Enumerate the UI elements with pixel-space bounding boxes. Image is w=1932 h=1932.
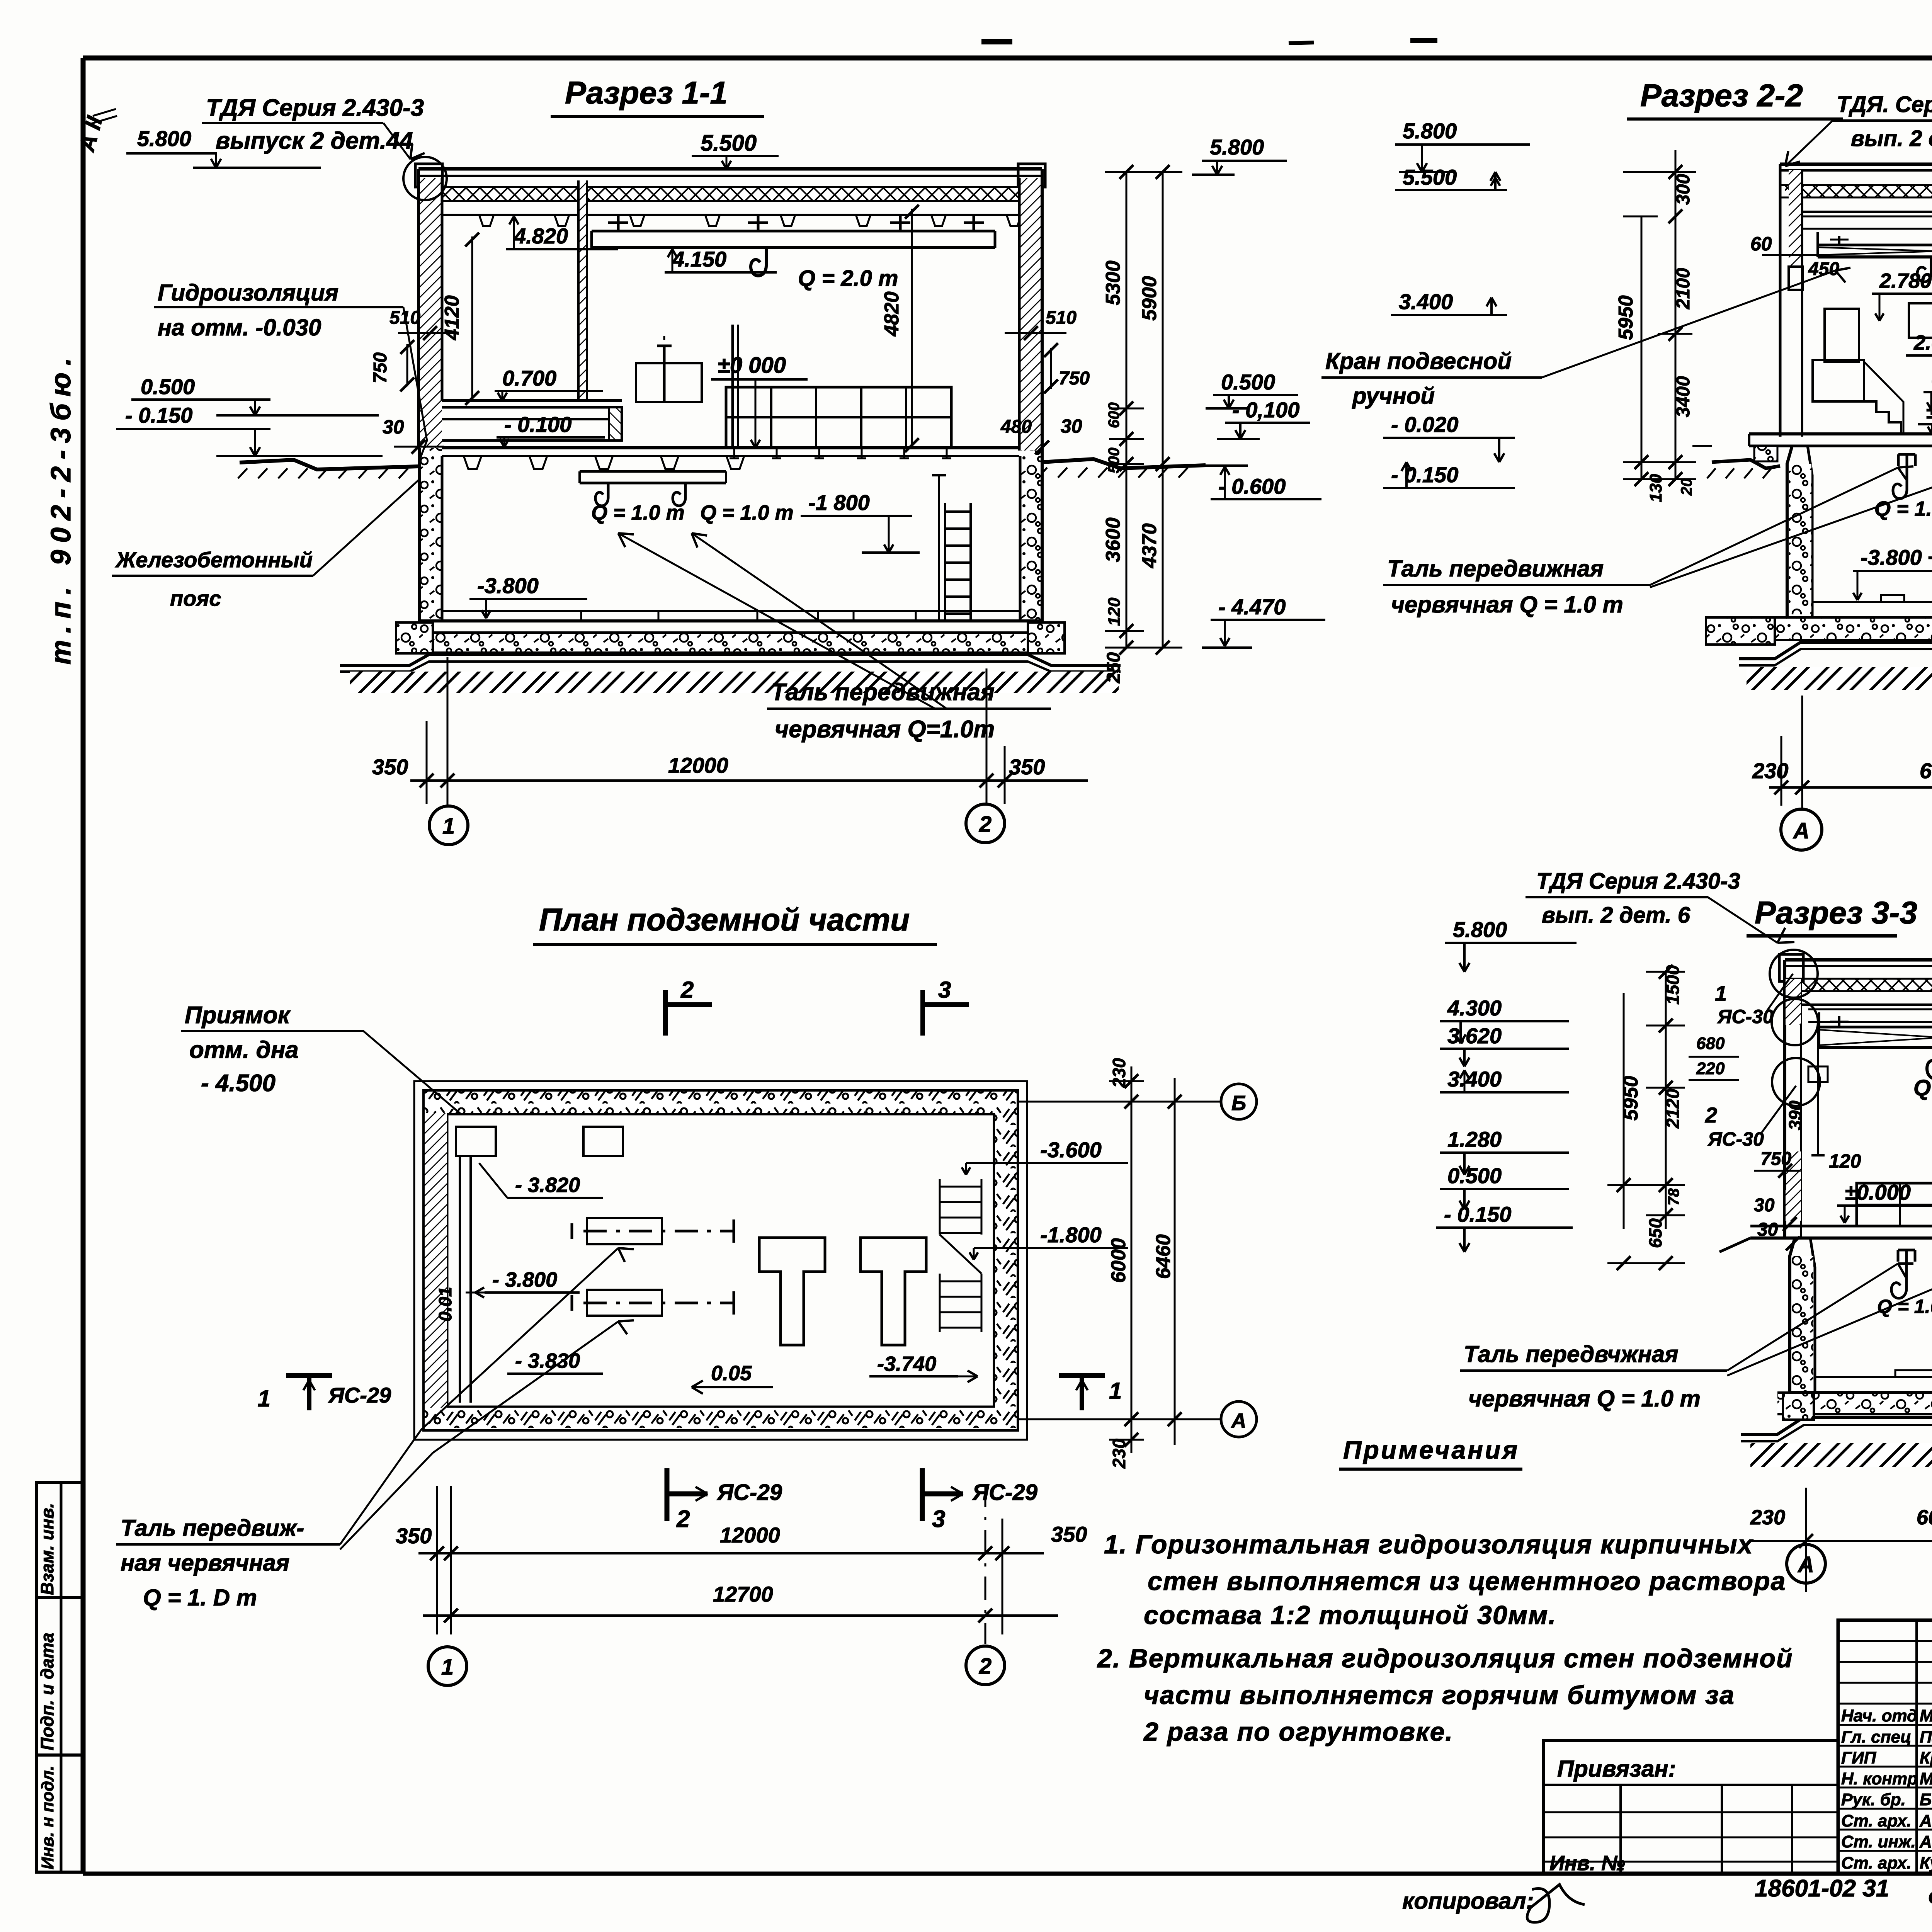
- svg-text:Приямок: Приямок: [185, 1002, 291, 1029]
- svg-text:Инв. №: Инв. №: [1549, 1852, 1625, 1875]
- svg-text:- 0.100: - 0.100: [504, 412, 571, 437]
- svg-text:2120: 2120: [1663, 1088, 1683, 1129]
- svg-text:части выполняется горячим б: части выполняется горячим битумом за: [1144, 1680, 1735, 1710]
- svg-text:Разрез 2-2: Разрез 2-2: [1640, 78, 1803, 113]
- svg-text:Нач. отд: Нач. отд: [1841, 1706, 1917, 1725]
- svg-text:3.620: 3.620: [1447, 1024, 1502, 1048]
- svg-text:стен выполняется из цементно: стен выполняется из цементного раствора: [1148, 1566, 1786, 1596]
- svg-text:-3.800: -3.800: [477, 573, 539, 598]
- svg-text:ЯС-29: ЯС-29: [716, 1480, 782, 1505]
- svg-text:Б: Б: [1231, 1092, 1246, 1115]
- svg-text:5.800: 5.800: [1210, 135, 1264, 159]
- svg-text:План подземной части: План подземной части: [539, 902, 910, 937]
- svg-text:4.150: 4.150: [672, 247, 726, 271]
- svg-text:0.01: 0.01: [435, 1287, 455, 1321]
- svg-text:копировал:: копировал:: [1402, 1888, 1534, 1914]
- svg-text:- 3.800: - 3.800: [492, 1268, 557, 1291]
- svg-text:12000: 12000: [668, 753, 728, 777]
- svg-text:ЯС-30: ЯС-30: [1717, 1006, 1774, 1027]
- svg-text:0.500: 0.500: [1221, 370, 1275, 394]
- svg-text:3.400: 3.400: [1447, 1067, 1502, 1091]
- svg-text:-3.740: -3.740: [877, 1352, 936, 1376]
- svg-text:ЯС-29: ЯС-29: [972, 1480, 1037, 1505]
- svg-text:А: А: [1797, 1552, 1814, 1577]
- svg-text:30: 30: [383, 416, 404, 438]
- svg-text:0.05: 0.05: [711, 1362, 752, 1385]
- svg-text:2: 2: [680, 977, 694, 1003]
- svg-text:450: 450: [1808, 259, 1839, 279]
- svg-text:- 0.150: - 0.150: [1391, 463, 1458, 487]
- svg-text:130: 130: [1646, 474, 1665, 502]
- svg-text:230: 230: [1109, 1058, 1129, 1088]
- svg-text:480: 480: [1000, 417, 1032, 437]
- svg-text:1.280: 1.280: [1447, 1127, 1502, 1151]
- svg-text:60: 60: [1750, 233, 1772, 255]
- svg-text:- 3.830: - 3.830: [515, 1349, 580, 1372]
- svg-text:5.800: 5.800: [137, 126, 191, 151]
- svg-text:1. Горизонтальная гидроизоляц: 1. Горизонтальная гидроизоляция кирпичны…: [1104, 1530, 1754, 1559]
- svg-text:Q = 1.0 т: Q = 1.0 т: [1877, 1296, 1932, 1317]
- svg-text:0.700: 0.700: [502, 366, 556, 390]
- svg-text:Болотова: Болотова: [1920, 1790, 1932, 1809]
- svg-text:±0.000: ±0.000: [1845, 1180, 1911, 1204]
- svg-text:5900: 5900: [1138, 276, 1161, 321]
- svg-text:Железобетонный: Железобетонный: [115, 548, 313, 572]
- svg-text:Примечания: Примечания: [1343, 1435, 1519, 1464]
- svg-text:12000: 12000: [720, 1523, 780, 1547]
- svg-text:на отм. -0.030: на отм. -0.030: [158, 315, 321, 340]
- svg-text:1: 1: [442, 814, 455, 839]
- svg-text:120: 120: [1105, 597, 1124, 626]
- svg-text:Н. контр: Н. контр: [1841, 1769, 1918, 1788]
- svg-text:3: 3: [938, 977, 951, 1003]
- svg-text:Q = 1.0 т: Q = 1.0 т: [591, 501, 685, 524]
- svg-text:3600: 3600: [1102, 517, 1124, 562]
- svg-text:3: 3: [932, 1506, 945, 1532]
- svg-text:2100: 2100: [1673, 268, 1694, 310]
- svg-text:Ст. инж.: Ст. инж.: [1841, 1832, 1916, 1851]
- svg-text:±0.000: ±0.000: [1926, 400, 1932, 423]
- svg-text:-1.800: -1.800: [1040, 1223, 1102, 1247]
- svg-text:ТДЯ. Сер. 2. 430-3: ТДЯ. Сер. 2. 430-3: [1837, 92, 1932, 117]
- svg-text:4.300: 4.300: [1447, 996, 1502, 1020]
- svg-text:2: 2: [676, 1506, 690, 1532]
- svg-text:2: 2: [1705, 1103, 1717, 1127]
- svg-text:±0 000: ±0 000: [718, 353, 786, 378]
- svg-text:вып. 2 дет. 6: вып. 2 дет. 6: [1542, 903, 1690, 928]
- svg-text:3400: 3400: [1673, 376, 1694, 417]
- svg-text:Ст. арх.: Ст. арх.: [1841, 1811, 1912, 1830]
- svg-text:- 4.470: - 4.470: [1218, 595, 1286, 619]
- svg-text:Взам. инв.: Взам. инв.: [37, 1503, 57, 1595]
- svg-text:18601-02 31: 18601-02 31: [1755, 1875, 1889, 1902]
- svg-text:Подп. и дата: Подп. и дата: [37, 1633, 57, 1750]
- svg-text:3.400: 3.400: [1399, 289, 1453, 314]
- svg-text:червячная Q = 1.0 т: червячная Q = 1.0 т: [1391, 592, 1623, 617]
- svg-text:ТДЯ Серия 2.430-3: ТДЯ Серия 2.430-3: [1536, 869, 1740, 894]
- svg-text:Рук. бр.: Рук. бр.: [1841, 1790, 1906, 1809]
- svg-text:6460: 6460: [1152, 1234, 1175, 1279]
- svg-text:Мешалкин: Мешалкин: [1920, 1706, 1932, 1725]
- svg-text:т.п. 902-2-3бю.: т.п. 902-2-3бю.: [46, 351, 77, 665]
- svg-text:0.500: 0.500: [1447, 1163, 1502, 1188]
- svg-text:ЯС-29: ЯС-29: [328, 1383, 391, 1407]
- svg-text:0.500: 0.500: [141, 374, 195, 399]
- svg-text:1: 1: [441, 1655, 454, 1680]
- svg-text:230: 230: [1752, 759, 1788, 783]
- svg-text:350: 350: [396, 1524, 432, 1548]
- svg-text:Гидроизоляция: Гидроизоляция: [158, 280, 338, 306]
- svg-text:2.080: 2.080: [1913, 331, 1932, 354]
- svg-text:750: 750: [1760, 1149, 1791, 1169]
- svg-text:78: 78: [1665, 1188, 1682, 1206]
- svg-text:1: 1: [1109, 1378, 1122, 1404]
- svg-text:-3.600: -3.600: [1040, 1138, 1102, 1162]
- svg-text:А: А: [1231, 1409, 1247, 1432]
- svg-text:Q = 2.0 т: Q = 2.0 т: [1913, 1075, 1932, 1100]
- svg-text:390: 390: [1785, 1100, 1805, 1130]
- svg-text:Панченко: Панченко: [1920, 1728, 1932, 1747]
- svg-text:ГИП: ГИП: [1841, 1748, 1877, 1767]
- svg-text:отм. дна: отм. дна: [189, 1037, 299, 1063]
- svg-text:6000: 6000: [1917, 1506, 1932, 1529]
- svg-text:Крюков: Крюков: [1920, 1748, 1932, 1767]
- svg-text:Кран подвесной: Кран подвесной: [1325, 348, 1512, 374]
- svg-text:выпуск 2 дет.44: выпуск 2 дет.44: [216, 128, 413, 154]
- svg-text:5.500: 5.500: [701, 131, 757, 156]
- svg-text:Ст. арх.: Ст. арх.: [1841, 1854, 1912, 1872]
- svg-text:5950: 5950: [1620, 1076, 1642, 1121]
- svg-text:2.780: 2.780: [1879, 269, 1932, 293]
- svg-text:- 0.150: - 0.150: [125, 403, 192, 427]
- svg-text:1: 1: [1715, 981, 1727, 1005]
- svg-text:- 0.600: - 0.600: [1218, 474, 1286, 498]
- svg-text:червячная Q=1.0т: червячная Q=1.0т: [775, 716, 995, 743]
- svg-text:220: 220: [1696, 1059, 1725, 1078]
- svg-text:20: 20: [1678, 478, 1695, 496]
- svg-text:Гл. спец: Гл. спец: [1841, 1728, 1911, 1747]
- svg-text:Таль передвчжная: Таль передвчжная: [1464, 1341, 1679, 1367]
- svg-text:30: 30: [1757, 1219, 1778, 1240]
- svg-text:состава 1:2 толщиной 30мм: состава 1:2 толщиной 30мм.: [1144, 1600, 1556, 1630]
- svg-text:350: 350: [1051, 1522, 1087, 1546]
- svg-text:-1 800: -1 800: [808, 490, 870, 515]
- svg-text:червячная Q = 1.0 т: червячная Q = 1.0 т: [1468, 1386, 1701, 1412]
- svg-text:Разрез 3-3: Разрез 3-3: [1755, 895, 1917, 930]
- svg-text:Таль передвиж-: Таль передвиж-: [121, 1515, 304, 1541]
- svg-text:- 4.500: - 4.500: [201, 1070, 276, 1097]
- svg-text:30: 30: [1754, 1195, 1775, 1216]
- svg-text:Мильцер: Мильцер: [1920, 1769, 1932, 1788]
- svg-text:1500: 1500: [1663, 965, 1683, 1005]
- svg-text:500: 500: [1105, 447, 1122, 473]
- svg-text:Разрез 1-1: Разрез 1-1: [565, 75, 728, 111]
- svg-text:5.800: 5.800: [1403, 119, 1457, 143]
- svg-text:Таль передвижная: Таль передвижная: [771, 679, 995, 706]
- svg-text:Q = 2.0 т: Q = 2.0 т: [798, 266, 898, 291]
- svg-text:Абдулина: Абдулина: [1919, 1832, 1932, 1851]
- svg-text:- 0.020: - 0.020: [1391, 412, 1458, 437]
- svg-text:- 3.820: - 3.820: [515, 1173, 580, 1197]
- svg-text:5950: 5950: [1615, 295, 1637, 340]
- svg-text:350: 350: [372, 755, 408, 779]
- svg-text:Q = 1. D т: Q = 1. D т: [143, 1585, 257, 1611]
- svg-text:120: 120: [1829, 1150, 1861, 1172]
- svg-text:2. Вертикальная гидроизоляци: 2. Вертикальная гидроизоляция стен подзе…: [1097, 1644, 1793, 1673]
- svg-text:Q = 1.0 т: Q = 1.0 т: [1874, 497, 1932, 520]
- svg-text:4820: 4820: [881, 291, 903, 337]
- svg-text:Андрианов: Андрианов: [1919, 1811, 1932, 1830]
- svg-text:вып. 2 дет.13: вып. 2 дет.13: [1851, 126, 1932, 151]
- svg-text:1: 1: [258, 1386, 270, 1412]
- svg-text:250: 250: [1104, 652, 1124, 684]
- svg-text:30: 30: [1061, 415, 1082, 437]
- svg-text:ТДЯ Серия 2.430-3: ТДЯ Серия 2.430-3: [206, 95, 424, 121]
- svg-text:12700: 12700: [713, 1582, 773, 1606]
- svg-text:5300: 5300: [1102, 260, 1124, 305]
- svg-text:ная червячная: ная червячная: [121, 1550, 289, 1576]
- svg-text:4370: 4370: [1138, 523, 1161, 568]
- svg-text:680: 680: [1696, 1034, 1725, 1053]
- svg-text:5.800: 5.800: [1453, 917, 1507, 942]
- svg-text:пояс: пояс: [170, 586, 221, 611]
- svg-text:2 раза по огрунтовке.: 2 раза по огрунтовке.: [1143, 1717, 1453, 1747]
- svg-text:230: 230: [1109, 1439, 1129, 1469]
- svg-text:Q = 1.0 т: Q = 1.0 т: [700, 501, 794, 524]
- svg-text:ЯС-30: ЯС-30: [1707, 1128, 1764, 1150]
- svg-text:Формат 22: Формат 22: [1928, 1885, 1932, 1911]
- svg-text:ручной: ручной: [1352, 383, 1435, 409]
- svg-text:750: 750: [1059, 368, 1090, 389]
- svg-text:Кузнецова: Кузнецова: [1920, 1854, 1932, 1872]
- svg-text:-3.800 ÷ 3.740: -3.800 ÷ 3.740: [1861, 545, 1932, 570]
- svg-text:350: 350: [1009, 755, 1045, 779]
- svg-text:650: 650: [1645, 1218, 1665, 1248]
- svg-text:6000: 6000: [1920, 759, 1932, 783]
- svg-text:510: 510: [1046, 308, 1077, 328]
- svg-text:300: 300: [1673, 174, 1694, 205]
- svg-text:- 0.150: - 0.150: [1444, 1202, 1511, 1226]
- svg-text:5.500: 5.500: [1403, 165, 1457, 189]
- svg-text:Таль передвижная: Таль передвижная: [1387, 556, 1604, 582]
- svg-text:2: 2: [979, 1654, 992, 1679]
- svg-text:4.820: 4.820: [514, 224, 568, 248]
- svg-text:6000: 6000: [1107, 1238, 1130, 1283]
- svg-text:Привязан:: Привязан:: [1557, 1756, 1676, 1782]
- svg-text:2: 2: [979, 812, 992, 837]
- svg-text:750: 750: [370, 352, 391, 383]
- svg-text:230: 230: [1750, 1506, 1785, 1529]
- svg-text:Инв. н подл.: Инв. н подл.: [38, 1765, 57, 1869]
- svg-text:600: 600: [1105, 402, 1122, 428]
- svg-text:- 0,100: - 0,100: [1232, 398, 1299, 422]
- svg-text:А: А: [1793, 818, 1810, 844]
